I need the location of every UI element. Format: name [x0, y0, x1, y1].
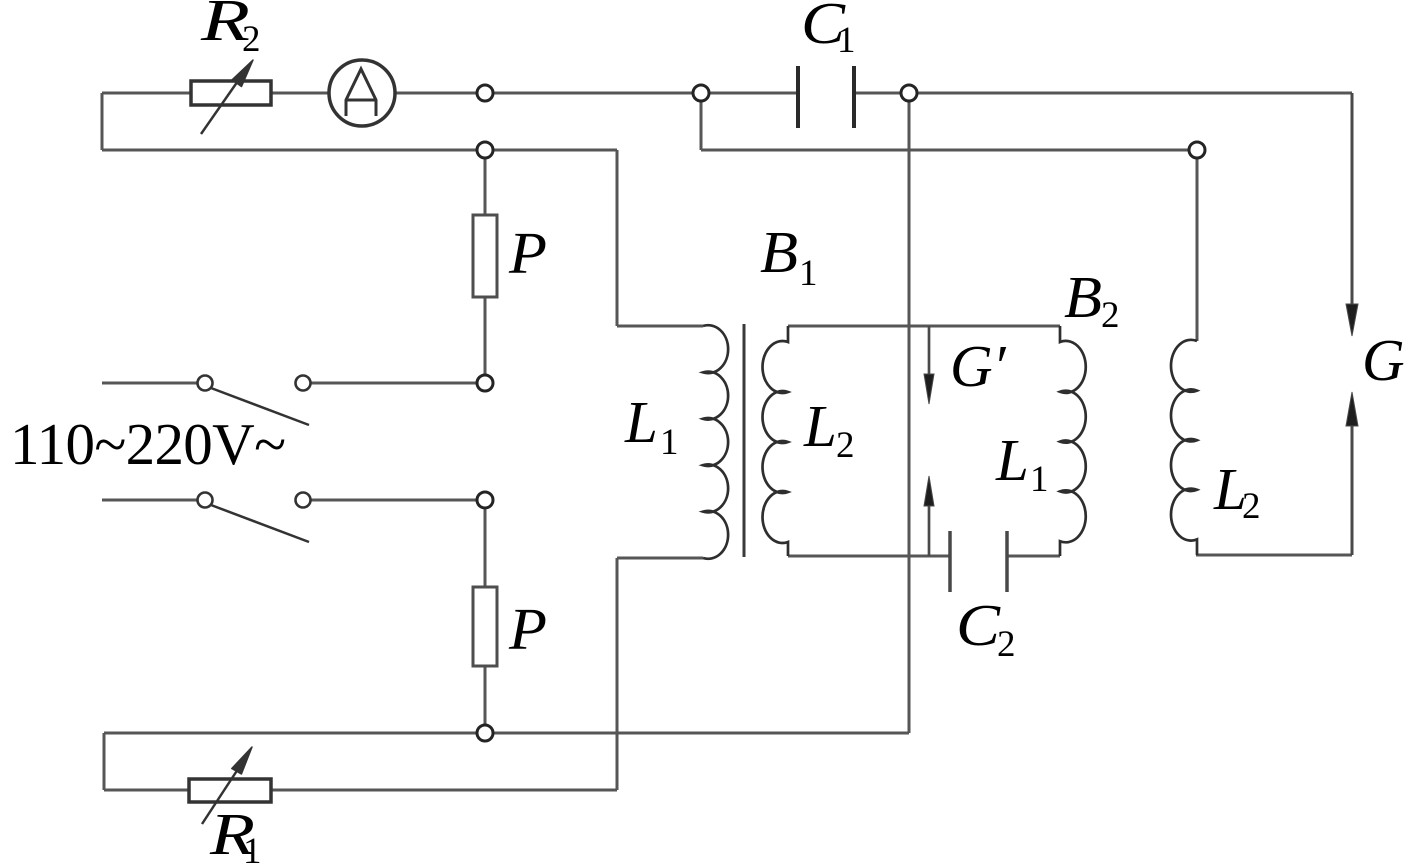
wire C1 right plate to node(909,93)	[854, 92, 901, 95]
spark gap G' down arrow	[924, 326, 934, 404]
svg-text:2: 2	[836, 425, 855, 466]
resistor R2 (variable)	[191, 60, 271, 134]
fuse P1	[473, 215, 497, 297]
wire node(485,150) to fuse P1	[484, 158, 487, 215]
svg-text:P: P	[508, 220, 547, 286]
svg-text:B: B	[760, 219, 798, 285]
wire bottom rail y=790 to R1	[104, 789, 189, 792]
wire node(485,500) to fuse P2	[484, 508, 487, 587]
transformer B1 core	[743, 324, 746, 557]
svg-text:L: L	[995, 427, 1029, 493]
svg-text:2: 2	[1242, 486, 1261, 527]
node (485,150)	[477, 142, 493, 158]
transformer B1 primary coil L1	[703, 325, 728, 559]
node (485,93)	[477, 85, 493, 101]
wire B1 secondary top rail y=326 to B2	[788, 325, 1060, 328]
wire ammeter to node	[395, 92, 477, 95]
transformer B1 secondary coil L2	[763, 326, 788, 556]
wire fuse P1 to node(485,383)	[484, 297, 487, 375]
ammeter A	[329, 60, 395, 126]
wire vertical x=617 lower	[616, 558, 619, 790]
wire node(701,93) drop	[700, 101, 703, 150]
svg-text:L: L	[803, 393, 837, 459]
node (909,93)	[901, 85, 917, 101]
node (485,383)	[477, 375, 493, 391]
svg-text:1: 1	[660, 422, 679, 463]
transformer B2 secondary coil L2	[1171, 340, 1197, 555]
wire B1 primary bottom	[617, 557, 703, 560]
capacitor C1	[798, 66, 854, 128]
wire node(701,93) to C1 left plate	[709, 92, 798, 95]
resistor R1 (variable)	[189, 747, 271, 824]
svg-text:G′: G′	[950, 333, 1007, 399]
wire left vertical x=102	[101, 93, 104, 150]
svg-text:1: 1	[243, 831, 262, 865]
svg-text:1: 1	[837, 20, 856, 61]
svg-text:G: G	[1362, 327, 1405, 393]
switch S1	[198, 376, 311, 426]
node (485,500)	[477, 492, 493, 508]
wire R1 to vertical x=617	[271, 789, 617, 792]
wire node(909,93) to top right corner	[917, 92, 1352, 95]
wire bottom left vertical	[103, 733, 106, 790]
spark gap G up arrow	[1346, 392, 1358, 555]
svg-text:2: 2	[242, 19, 261, 60]
svg-text:B: B	[1064, 264, 1102, 330]
svg-text:1: 1	[799, 253, 818, 294]
wire top rail left to R2	[102, 92, 191, 95]
svg-text:L: L	[624, 389, 658, 455]
svg-text:110~220V~: 110~220V~	[10, 411, 286, 477]
spark gap G' up arrow	[924, 476, 934, 556]
wire B1 secondary bottom to C2	[788, 555, 950, 558]
switch S2	[198, 493, 311, 543]
wire switch row1 left stub	[102, 382, 198, 385]
wire C2 to B2 primary bottom	[1007, 555, 1060, 558]
transformer B2 primary coil L1	[1060, 326, 1086, 556]
wire node(485,93) to node(701,93)	[493, 92, 693, 95]
svg-text:P: P	[508, 596, 547, 662]
svg-text:2: 2	[1101, 295, 1120, 336]
wire B2 secondary bottom	[1196, 554, 1352, 557]
wire y=150 segment to node(1197,150)	[701, 149, 1189, 152]
wire node(1197,150) drop to B2 secondary	[1196, 158, 1199, 341]
node (701,93)	[693, 85, 709, 101]
wire fuse P2 to node(485,733)	[484, 666, 487, 725]
fuse P2	[473, 587, 497, 666]
svg-text:2: 2	[997, 624, 1016, 665]
wire B1 primary top	[617, 325, 703, 328]
wire R2 to ammeter	[271, 92, 329, 95]
wire switch row2 to node	[310, 499, 477, 502]
capacitor C2	[950, 531, 1007, 592]
spark gap G down arrow	[1346, 93, 1358, 336]
wire switch row2 left stub	[102, 499, 198, 502]
svg-text:C: C	[956, 592, 1001, 658]
svg-text:1: 1	[1030, 459, 1049, 500]
wire second rail y=150	[102, 149, 617, 152]
node (485,733)	[477, 725, 493, 741]
node (1197,150)	[1189, 142, 1205, 158]
wire long vertical x=909	[908, 101, 911, 733]
wire vertical x=617 upper	[616, 150, 619, 326]
wire switch row1 to node	[310, 382, 477, 385]
wire bottom rail y=733	[104, 732, 909, 735]
